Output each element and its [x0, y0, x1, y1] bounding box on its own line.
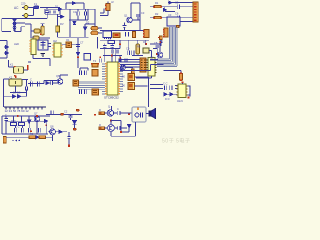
resistor R9	[10, 123, 16, 126]
wire	[58, 36, 89, 38]
diode D16	[170, 93, 173, 96]
inductor B2	[41, 26, 44, 35]
IC U3	[167, 17, 180, 28]
capacitor C20	[125, 58, 127, 62]
wire	[48, 131, 59, 133]
pad Kb	[76, 109, 79, 111]
capacitor CE1	[91, 26, 98, 30]
capacitor C10	[76, 45, 80, 47]
transistor Q7	[34, 116, 40, 122]
diode D19	[27, 120, 30, 123]
wire	[183, 83, 191, 96]
capacitor C13	[103, 45, 107, 47]
capacitor C14	[110, 45, 114, 47]
wire	[120, 112, 132, 114]
diode D7	[61, 15, 65, 18]
diode Da	[46, 82, 49, 85]
capacitor C23	[25, 87, 27, 91]
svg-text:Q7: Q7	[34, 111, 38, 115]
zener D22	[73, 121, 77, 125]
node N	[68, 145, 70, 147]
wire	[100, 40, 120, 48]
zener D8	[73, 21, 76, 24]
svg-text:O1: O1	[66, 38, 70, 42]
wire	[104, 106, 117, 113]
label dots	[12, 140, 20, 142]
capacitor C12	[85, 70, 87, 75]
node E	[119, 44, 121, 46]
diode D21	[36, 136, 39, 139]
wire	[128, 40, 151, 57]
svg-text:C5: C5	[175, 0, 179, 4]
diode D5	[59, 8, 63, 11]
socket S1	[140, 58, 146, 72]
diode D9	[84, 27, 87, 30]
node X2a	[111, 55, 113, 57]
jumper J6	[180, 72, 183, 81]
svg-text:R: R	[99, 123, 101, 127]
wire	[77, 38, 79, 68]
wire	[28, 8, 34, 16]
svg-text:R5: R5	[108, 36, 112, 40]
capacitor C27	[15, 128, 17, 133]
svg-text:C: C	[117, 107, 119, 111]
wire edge	[97, 37, 99, 48]
LED D13	[6, 52, 9, 55]
socket J3	[113, 33, 120, 37]
capacitor C7	[177, 15, 179, 20]
connector J4	[143, 30, 149, 38]
capacitor C19	[119, 58, 121, 62]
relay RL1	[128, 74, 134, 81]
svg-text:ULN: ULN	[177, 99, 183, 103]
svg-text:AC: AC	[14, 6, 19, 10]
wire	[40, 7, 60, 9]
capacitor CE3	[136, 44, 140, 54]
wire	[58, 9, 71, 37]
svg-text:C: C	[30, 77, 32, 81]
svg-text:D7 D8: D7 D8	[13, 91, 21, 95]
wire	[13, 116, 29, 123]
resistor R8	[131, 69, 134, 75]
wire	[137, 17, 139, 20]
capacitor C18	[85, 89, 87, 94]
capacitor C32	[67, 136, 70, 138]
wire	[120, 68, 133, 71]
node Y2a	[145, 43, 147, 45]
capacitor C2c	[77, 12, 79, 16]
capacitor C2d	[84, 12, 86, 16]
wire	[15, 18, 26, 31]
wire	[146, 113, 149, 115]
connector J1	[193, 2, 198, 22]
svg-text:Q8: Q8	[50, 125, 54, 129]
wire	[28, 55, 50, 67]
node R1a	[17, 115, 19, 117]
svg-text:50于 5电子: 50于 5电子	[162, 137, 190, 145]
svg-text:LED: LED	[14, 42, 19, 46]
diode D15	[164, 93, 167, 96]
capacitor C4	[122, 25, 126, 27]
wire	[95, 9, 102, 33]
transformer T2	[91, 63, 99, 76]
capacitor C15	[127, 51, 129, 56]
resistor R14	[99, 127, 104, 130]
header J5	[163, 28, 168, 38]
svg-text:C: C	[5, 113, 7, 117]
IC U5	[29, 39, 36, 55]
node D	[77, 57, 79, 59]
resistor R5	[108, 41, 114, 44]
zener D14	[76, 53, 79, 56]
wire	[131, 3, 140, 30]
capacitor C35	[51, 80, 53, 84]
diode D24	[127, 124, 130, 127]
capacitor CX2	[116, 50, 118, 54]
pin stubs U1 left	[102, 64, 105, 94]
inductor B3	[33, 36, 39, 40]
wire	[80, 68, 88, 70]
capacitor C5	[126, 32, 129, 37]
wire	[150, 60, 163, 89]
svg-text:C9: C9	[126, 47, 130, 51]
wire	[167, 86, 178, 95]
IC U7	[52, 43, 62, 57]
wire	[25, 24, 50, 38]
svg-text:K2: K2	[9, 75, 13, 79]
capacitor C28	[22, 128, 24, 133]
node P	[110, 120, 112, 122]
svg-text:D2: D2	[86, 21, 90, 25]
wire	[111, 122, 135, 136]
pad Kc	[73, 128, 76, 130]
wire	[49, 82, 57, 84]
capacitor C17	[79, 89, 81, 94]
relay K1	[14, 66, 24, 73]
transistor Q1	[127, 17, 133, 23]
svg-text:C2: C2	[64, 110, 68, 114]
capacitor C8	[160, 41, 163, 43]
bus wires	[157, 27, 177, 67]
capacitor CX1	[111, 50, 113, 54]
connector J2	[105, 4, 110, 11]
capacitor C25	[38, 82, 40, 87]
node X2b	[120, 57, 122, 59]
svg-text:RV: RV	[60, 22, 64, 26]
speaker SP1	[149, 108, 156, 118]
svg-text:R6: R6	[137, 44, 141, 48]
IC U9	[177, 84, 188, 98]
wire	[45, 136, 52, 138]
svg-text:R7: R7	[143, 40, 147, 44]
svg-text:R: R	[99, 108, 101, 112]
wire	[85, 24, 95, 37]
wire rail top	[48, 8, 95, 10]
wire	[66, 3, 84, 9]
wire	[104, 121, 121, 133]
bus left	[78, 82, 105, 89]
wire	[123, 23, 125, 31]
resistor R12	[39, 136, 45, 139]
capacitor C11	[79, 70, 81, 75]
capacitor C2b	[54, 11, 56, 14]
wire	[135, 77, 149, 107]
resistor R2	[153, 6, 162, 8]
optocoupler O1	[66, 42, 71, 47]
svg-text:Q2: Q2	[150, 55, 154, 59]
capacitor C22	[170, 86, 172, 90]
transistor Q2	[157, 52, 163, 58]
wire	[2, 116, 50, 134]
capacitor C2	[49, 11, 51, 14]
wire	[150, 43, 160, 60]
IC U2	[103, 31, 111, 39]
node I	[45, 125, 47, 127]
capacitor CY1	[56, 26, 60, 32]
node Q	[120, 131, 122, 133]
diode D3	[13, 28, 16, 31]
wire	[28, 81, 44, 84]
crystal Y2	[143, 48, 149, 53]
capacitor C6	[177, 4, 179, 9]
wire rail mid	[100, 30, 146, 32]
svg-text:C8: C8	[154, 41, 158, 45]
wire	[120, 127, 127, 129]
svg-text:STC89C52: STC89C52	[104, 95, 119, 99]
resistor R13	[99, 112, 104, 115]
relay RL2	[128, 83, 134, 90]
node G	[188, 97, 190, 99]
svg-text:K1: K1	[10, 62, 14, 66]
capacitor C1	[45, 11, 49, 13]
wire	[2, 13, 47, 32]
capacitor CE2	[91, 31, 98, 35]
node F	[182, 81, 184, 83]
svg-text:Q6: Q6	[56, 74, 60, 78]
svg-text:U3: U3	[168, 13, 172, 17]
svg-text:D1: D1	[55, 5, 59, 9]
resistor R3	[153, 17, 162, 19]
IC U8 box	[84, 54, 91, 61]
wire	[58, 16, 64, 18]
diode D6	[72, 2, 75, 5]
resistor R10	[18, 123, 24, 126]
resistor R1	[133, 32, 136, 38]
wire	[44, 75, 68, 81]
wire	[5, 116, 7, 123]
capacitor C30	[51, 111, 53, 115]
wire	[69, 9, 88, 20]
node L	[94, 114, 96, 116]
diode D11	[169, 1, 172, 4]
wire	[100, 2, 108, 16]
transistor Q9	[107, 110, 113, 116]
capacitor C29	[29, 128, 31, 133]
capacitor C33	[118, 111, 120, 115]
module M1	[132, 107, 146, 122]
LED D12	[6, 46, 9, 49]
wire	[70, 115, 72, 121]
optocoupler O3	[92, 89, 98, 95]
wire	[48, 43, 51, 46]
node T1a	[40, 33, 42, 35]
IC U6 box	[38, 40, 48, 50]
socket O2	[73, 80, 78, 86]
wire	[175, 7, 193, 22]
svg-text:R1: R1	[155, 1, 159, 5]
node X2c	[100, 56, 102, 58]
wire	[0, 41, 7, 59]
wire	[6, 121, 46, 134]
diode D10	[164, 8, 167, 11]
wire	[68, 138, 70, 144]
inductor B1	[34, 29, 40, 33]
transistor Q6	[57, 79, 63, 85]
header P3	[4, 106, 46, 108]
wire	[4, 90, 27, 97]
capacitor C3	[136, 15, 140, 17]
node H	[15, 76, 16, 79]
svg-text:12 34 56 78 90 12: 12 34 56 78 90 12	[5, 109, 30, 113]
transistor Q10	[108, 125, 115, 132]
wire	[150, 7, 177, 18]
node S1a	[156, 53, 158, 55]
capacitor C26	[4, 119, 7, 121]
svg-text:C6: C6	[175, 11, 179, 15]
svg-text:U2: U2	[53, 39, 57, 43]
resistor R11	[29, 136, 35, 139]
wire	[105, 47, 116, 62]
svg-text:Q1: Q1	[124, 13, 128, 17]
capacitor C16	[132, 51, 134, 56]
wire	[28, 7, 34, 9]
fuse F1	[34, 6, 39, 9]
svg-text:R2: R2	[155, 12, 159, 16]
ground	[41, 54, 46, 57]
wire	[46, 114, 82, 116]
wire	[6, 136, 29, 138]
wire	[120, 60, 152, 79]
diode D18	[18, 95, 21, 98]
capacitor C34	[118, 126, 120, 130]
crystal X1	[3, 137, 6, 144]
wire rail2	[45, 9, 60, 14]
wire	[74, 120, 76, 128]
pad Ka	[61, 113, 64, 115]
wire	[57, 14, 59, 26]
wire	[53, 132, 70, 141]
capacitor C9	[155, 45, 159, 47]
capacitor CX3	[100, 59, 102, 63]
plug P1	[22, 6, 28, 10]
wire O1a	[62, 44, 78, 46]
IC U10	[147, 58, 157, 77]
wire rail B3	[100, 39, 149, 41]
diode D2	[13, 24, 16, 27]
svg-text:C3: C3	[141, 11, 145, 15]
diode D1	[13, 19, 16, 22]
node C	[14, 75, 16, 77]
wire	[150, 40, 161, 46]
capacitor C31	[69, 116, 73, 118]
node B	[27, 65, 28, 70]
capacitor C21	[165, 86, 167, 90]
node J	[30, 131, 32, 133]
transistor Q3	[121, 65, 126, 70]
wire	[9, 60, 29, 70]
plug P2	[22, 14, 28, 18]
wire to U9	[120, 65, 181, 74]
svg-text:JK: JK	[122, 84, 126, 88]
svg-text:C7: C7	[80, 41, 84, 45]
resistor R4	[158, 36, 162, 39]
svg-text:R9: R9	[30, 132, 34, 136]
node A	[159, 42, 161, 44]
diode D17	[13, 95, 16, 98]
svg-text:C C: C C	[163, 82, 168, 86]
relay K4	[9, 79, 22, 86]
diode D20	[45, 119, 48, 122]
svg-text:C1: C1	[73, 10, 77, 14]
diode D23	[59, 130, 62, 133]
wire xtal	[103, 56, 122, 63]
svg-text:JK: JK	[122, 75, 126, 79]
wire	[165, 3, 193, 12]
transistor Q8	[50, 129, 56, 135]
wire	[46, 8, 48, 11]
pin stubs U1 right	[120, 69, 123, 92]
node O	[128, 113, 130, 115]
svg-text:220: 220	[21, 2, 26, 6]
capacitor C24	[31, 82, 33, 87]
node R1b	[36, 115, 38, 117]
IC U1	[105, 62, 120, 95]
wire	[4, 79, 29, 107]
svg-text:U5: U5	[31, 35, 35, 39]
svg-text:Q: Q	[108, 105, 110, 109]
capacitor C36	[39, 128, 41, 133]
svg-text:D D: D D	[165, 97, 170, 101]
